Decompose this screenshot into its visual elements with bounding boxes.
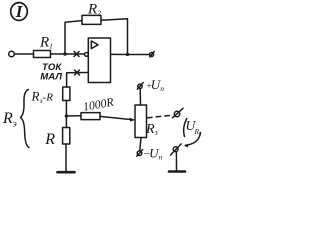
input terminal: [9, 51, 15, 57]
label U_R3 with arrow: [184, 118, 202, 148]
feedback right wire: [101, 19, 128, 55]
figure label I: [11, 2, 28, 21]
resistor R1: [34, 35, 53, 58]
inverting input bubble: [85, 53, 89, 57]
feedback left wire: [65, 21, 82, 54]
ground: [58, 171, 75, 174]
svg-text:МАЛ: МАЛ: [40, 71, 62, 82]
brace Re: [2, 90, 29, 148]
resistor 1000R: [66, 94, 115, 119]
node junction at inverting input: [63, 52, 66, 55]
wire R1 to op-amp input: [51, 53, 85, 55]
wire pot top to +Un: [139, 89, 141, 106]
terminal lower output: [171, 144, 182, 155]
svg-text:Rэ-R: Rэ-R: [31, 89, 54, 106]
wire input to R1: [14, 53, 33, 55]
break cross upper input: [74, 52, 79, 57]
wire lower input: [67, 73, 89, 88]
wire to ground: [65, 144, 67, 171]
wiper arrow wire: [100, 116, 135, 121]
node junction divider tap: [65, 114, 68, 117]
wire lower output to ground: [175, 152, 177, 171]
terminal wiper output: [173, 108, 184, 118]
output wire: [111, 53, 150, 55]
dashed wiper output: [148, 115, 173, 118]
svg-text:R: R: [44, 131, 55, 148]
op-amp U1: [88, 38, 110, 83]
resistor R2: [82, 2, 101, 25]
resistor R: [44, 128, 69, 148]
wire pot bottom to -Un: [140, 138, 141, 151]
terminal +Un: [137, 77, 164, 93]
break cross lower input: [75, 70, 80, 75]
output node junction: [126, 53, 129, 56]
resistor Re-R: [31, 87, 70, 105]
ground right: [169, 170, 185, 173]
wire between chain resistors: [65, 101, 67, 128]
text TOK MAL: [40, 62, 62, 83]
terminal -Un: [137, 145, 163, 161]
output terminal: [150, 51, 155, 57]
potentiometer R3: [135, 105, 158, 138]
